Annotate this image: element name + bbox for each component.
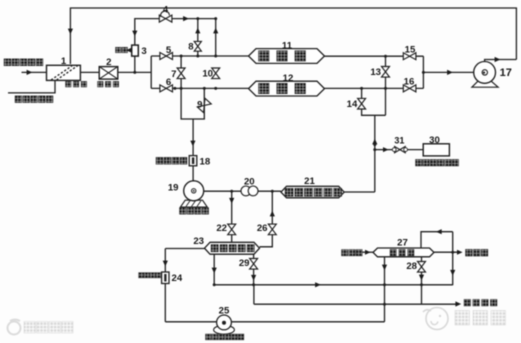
adsorber 11 vessel bbox=[249, 49, 325, 64]
svg-text:9: 9 bbox=[197, 100, 202, 111]
pump 19 text 回转风机 bbox=[180, 208, 187, 215]
wire valve-29 leg bbox=[253, 254, 255, 285]
sight glass 3 bbox=[132, 45, 139, 56]
junction bbox=[214, 55, 217, 58]
valve 9 (diagonal) bbox=[197, 98, 211, 112]
junction bbox=[384, 55, 387, 58]
wire regeneration header y18.6 bbox=[135, 19, 216, 56]
wire flame-arrester to manifold bbox=[118, 71, 152, 73]
valve 14 bbox=[358, 98, 366, 109]
svg-text:17: 17 bbox=[500, 67, 512, 79]
wire condenser right vertical bbox=[452, 232, 454, 286]
svg-text:12: 12 bbox=[283, 73, 294, 84]
pump 19 base bbox=[181, 200, 208, 207]
wire line A collector bbox=[214, 284, 453, 286]
valve 8 bbox=[194, 41, 201, 51]
watermark left logo bbox=[8, 320, 21, 335]
svg-text:7: 7 bbox=[171, 69, 176, 80]
junction bbox=[180, 55, 183, 58]
wire heater 21 outlet to riser bbox=[344, 191, 375, 193]
cooling water text 冷却水 bbox=[342, 250, 348, 256]
arrow line A right bbox=[315, 282, 321, 287]
valve 16 bbox=[403, 85, 416, 92]
junction bbox=[373, 148, 376, 151]
sample point text 取样 bbox=[116, 47, 122, 53]
arrow component-3 drop bbox=[132, 31, 137, 37]
valve 10 bbox=[212, 68, 220, 79]
wire small-cycle branch bbox=[434, 251, 457, 253]
gas meter 20 bbox=[241, 186, 251, 196]
valve 13 bbox=[382, 67, 390, 78]
wire valve-13 vertical bbox=[385, 56, 387, 115]
condenser 27 vessel bbox=[373, 248, 434, 257]
exchanger 23 text 板式换热器 bbox=[211, 245, 218, 252]
svg-text:13: 13 bbox=[370, 67, 381, 78]
wire top header to adsorber 11 bbox=[151, 55, 248, 57]
svg-text:16: 16 bbox=[404, 77, 415, 88]
arrow valve-8 riser up bbox=[195, 28, 200, 34]
wire drop to flow controller 18 bbox=[192, 119, 194, 156]
valve 15 bbox=[403, 53, 416, 60]
valve 28 bbox=[418, 262, 426, 273]
valve 7 bbox=[177, 68, 185, 79]
junction bbox=[360, 87, 363, 90]
exchanger 23 vessel bbox=[205, 242, 260, 254]
junction bbox=[214, 87, 217, 90]
wire condenser top loop bbox=[421, 232, 453, 249]
arrow x215 riser up bbox=[213, 28, 218, 34]
arrow 23 left leg down bbox=[212, 268, 217, 274]
svg-text:21: 21 bbox=[304, 176, 315, 187]
svg-text:4: 4 bbox=[163, 5, 168, 15]
watermark left text bbox=[24, 322, 36, 334]
svg-text:31: 31 bbox=[394, 136, 404, 146]
valve 5 bbox=[160, 53, 173, 60]
feed text 待干燥空气 bbox=[4, 59, 11, 66]
junction bbox=[173, 87, 176, 90]
junction bbox=[422, 71, 425, 74]
junction bbox=[133, 71, 136, 74]
wire line A to line B drop bbox=[253, 285, 255, 304]
arrow small cycle right bbox=[457, 250, 463, 255]
arrester label text 阻火器 bbox=[98, 81, 104, 87]
wire filter bottom product line bbox=[8, 80, 55, 93]
wire exchanger 23 feed line bbox=[165, 248, 204, 250]
junction bbox=[214, 17, 217, 20]
junction bbox=[180, 87, 183, 90]
arrow solvent outlet right bbox=[455, 301, 461, 306]
junction bbox=[271, 190, 274, 193]
arrow top recycle down bbox=[68, 29, 73, 35]
svg-text:2: 2 bbox=[106, 57, 111, 68]
wire bottom header to adsorber 12 bbox=[151, 87, 248, 89]
arrow condenser loop left bbox=[436, 229, 442, 234]
svg-text:15: 15 bbox=[405, 45, 416, 56]
wire condensate pump suction line bbox=[165, 321, 384, 323]
junction bbox=[230, 190, 233, 193]
arrow 27 left leg down bbox=[382, 265, 387, 271]
adsorber 11 text 吸附器 bbox=[259, 51, 270, 62]
heater 21 text 导热油加热器 bbox=[285, 188, 293, 196]
svg-text:24: 24 bbox=[172, 273, 183, 284]
adsorber 12 vessel bbox=[249, 81, 325, 96]
svg-text:14: 14 bbox=[347, 99, 358, 110]
pump 19 casing bbox=[184, 181, 204, 201]
blower 17 base bbox=[472, 81, 498, 88]
svg-text:19: 19 bbox=[168, 183, 179, 194]
cooling brine text 冷却盐水 bbox=[139, 273, 144, 278]
wire cooling water inlet stub bbox=[362, 251, 373, 253]
watermark right text 环保人 bbox=[455, 311, 470, 326]
wire blower discharge to top line bbox=[485, 60, 517, 64]
wire manifold to blower suction bbox=[423, 71, 474, 73]
wire heater riser bbox=[374, 115, 376, 192]
arrow blower suction bbox=[447, 70, 453, 75]
flow control text 流量控制 bbox=[156, 157, 163, 164]
wire valve-22 leg bbox=[231, 191, 233, 243]
wire line B solvent outlet bbox=[254, 303, 456, 305]
wire valve-14 leg bbox=[362, 88, 386, 115]
svg-text:29: 29 bbox=[239, 258, 250, 269]
watermark right logo bbox=[423, 308, 448, 330]
junction bbox=[384, 87, 387, 90]
small cycle text 小循环 bbox=[466, 249, 473, 256]
condenser 27 text 冷凝器 bbox=[390, 249, 396, 255]
svg-text:28: 28 bbox=[406, 261, 417, 272]
junction bbox=[203, 87, 206, 90]
flow controller 18 box bbox=[189, 156, 197, 166]
svg-text:10: 10 bbox=[202, 69, 213, 80]
solvent outlet text 再生溶剂 bbox=[464, 299, 471, 306]
svg-text:18: 18 bbox=[200, 156, 211, 167]
arrow regen header right bbox=[183, 16, 189, 21]
svg-text:1: 1 bbox=[61, 56, 67, 67]
filter vessel 1 body bbox=[47, 65, 81, 80]
pump 25 bowl bbox=[214, 325, 235, 334]
pump 25 text 冷凝液离心泵 bbox=[206, 334, 212, 340]
blower 17 casing bbox=[474, 62, 496, 84]
wire right manifold bar bbox=[422, 56, 424, 88]
svg-text:23: 23 bbox=[193, 236, 204, 247]
wire condenser 27 left bottom leg bbox=[384, 256, 386, 321]
flame arrester 2 box bbox=[99, 67, 118, 80]
junction bbox=[196, 17, 199, 20]
junction bbox=[213, 283, 216, 286]
arrow below valve 28 down bbox=[419, 275, 424, 281]
valve 4 ball valve bbox=[159, 15, 172, 22]
wire controller 24 to pump line bbox=[164, 284, 166, 322]
junction bbox=[373, 143, 376, 146]
svg-text:20: 20 bbox=[244, 176, 255, 187]
arrow below valve 29 down bbox=[251, 275, 256, 281]
sample point arrow bbox=[126, 48, 131, 53]
wire valve-7 vertical bbox=[180, 56, 182, 88]
arrow drop to 18 bbox=[190, 141, 195, 147]
valve 22 bbox=[228, 224, 236, 235]
filter label text 活性炭 bbox=[66, 81, 72, 87]
arrow valve-22 leg down bbox=[229, 198, 234, 204]
valve 29 bbox=[250, 259, 258, 270]
junction bbox=[383, 303, 386, 306]
wire adsorber 11 outlet header bbox=[325, 55, 424, 57]
wire valve-28 leg bbox=[421, 256, 423, 304]
svg-text:8: 8 bbox=[188, 42, 194, 53]
wire valve-9 bypass loop bbox=[181, 88, 204, 119]
arrow heater riser up bbox=[372, 139, 377, 145]
svg-text:5: 5 bbox=[166, 45, 172, 56]
regen gas holder 30 box bbox=[423, 144, 449, 156]
svg-text:25: 25 bbox=[219, 305, 230, 316]
wire filter to flame-arrester bbox=[80, 71, 100, 73]
svg-text:30: 30 bbox=[429, 135, 440, 146]
arrow blower discharge bbox=[495, 57, 501, 62]
wire valve-26 leg bbox=[260, 191, 273, 247]
controller 24 box bbox=[162, 272, 169, 284]
valve 26 bbox=[268, 224, 276, 235]
junction bbox=[252, 283, 255, 286]
wire exchanger 23 left bottom leg bbox=[213, 254, 215, 285]
blower 17 hub bbox=[482, 70, 487, 75]
wire cooling water control leg bbox=[164, 249, 166, 273]
svg-text:26: 26 bbox=[257, 223, 268, 234]
wire component-3 drop leg bbox=[134, 57, 136, 73]
svg-text:27: 27 bbox=[397, 238, 408, 249]
heater 21 vessel bbox=[281, 186, 344, 198]
junction bbox=[383, 283, 386, 286]
wire manifold left bar bbox=[150, 56, 152, 88]
arrow right vertical down bbox=[450, 270, 455, 276]
wire riser valve-8 branch bbox=[197, 19, 199, 56]
wire flow controller 18 to pump 19 bbox=[192, 166, 194, 182]
adsorber 12 text 吸附器 bbox=[259, 83, 270, 94]
svg-text:22: 22 bbox=[216, 223, 227, 234]
junction bbox=[420, 283, 423, 286]
wire top main recycle line bbox=[70, 8, 516, 64]
cooling water arrow bbox=[365, 250, 371, 255]
wire adsorber 12 outlet header bbox=[325, 87, 424, 89]
filter vessel 1 diagonal band bbox=[51, 66, 78, 80]
arrow valve-26 leg up bbox=[270, 211, 275, 217]
pump 25 casing bbox=[217, 315, 232, 330]
arrow feed inlet bbox=[27, 70, 33, 75]
valve 31 bbox=[395, 147, 406, 153]
wire feed inlet bbox=[22, 71, 48, 73]
product text 蒸馏为产品 bbox=[15, 96, 22, 103]
wire pump 19 discharge line bbox=[203, 190, 281, 192]
svg-text:11: 11 bbox=[282, 40, 293, 51]
junction bbox=[196, 55, 199, 58]
valve 6 bbox=[160, 85, 173, 92]
junction bbox=[451, 251, 454, 254]
wire branch to valve 31 bbox=[375, 149, 423, 151]
svg-text:3: 3 bbox=[141, 46, 146, 57]
regen gas text 氮气再生气柜 bbox=[416, 159, 423, 166]
arrow to valve 31 bbox=[383, 147, 389, 152]
arrow above 24 down bbox=[163, 261, 168, 267]
